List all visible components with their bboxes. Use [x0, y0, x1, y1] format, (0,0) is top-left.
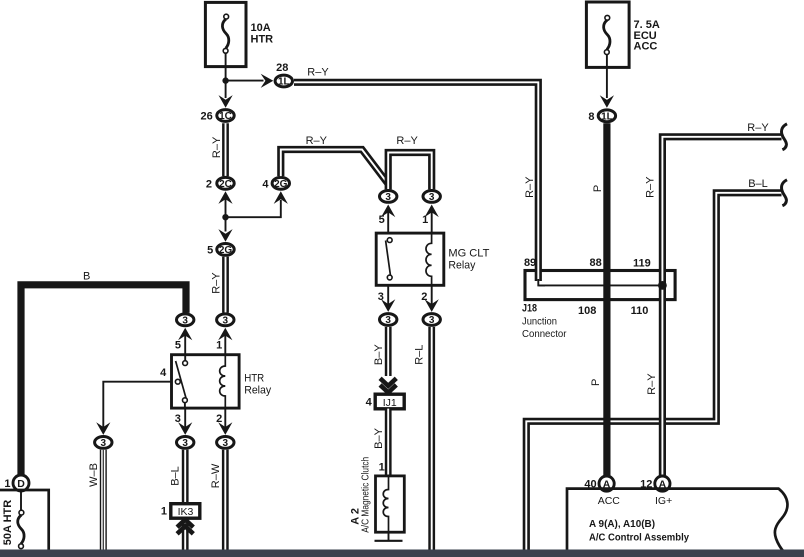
- svg-text:IK3: IK3: [178, 506, 194, 518]
- wire MG relay pin 3 down: [387, 285, 389, 305]
- connector 3 on B-L wire: [177, 437, 194, 450]
- chevron arrows above IJ1: [380, 378, 396, 392]
- connector arrow below 2C: [218, 191, 232, 204]
- svg-text:A 9(A), A10(B): A 9(A), A10(B): [589, 518, 655, 530]
- wire fuse output vertical: [225, 67, 227, 98]
- junction IJ1 box: [375, 394, 404, 409]
- svg-text:10A: 10A: [251, 22, 271, 34]
- HTR relay coil: [220, 355, 226, 408]
- connector 1L pin 28: [275, 75, 292, 88]
- svg-text:1: 1: [4, 478, 10, 490]
- svg-text:D: D: [17, 478, 25, 490]
- svg-text:5: 5: [379, 214, 385, 226]
- node junction below 10A fuse: [222, 77, 228, 83]
- svg-text:8: 8: [588, 111, 594, 123]
- fuse 7.5A ECU ACC element: [604, 15, 610, 54]
- svg-text:P: P: [592, 185, 604, 192]
- svg-text:4: 4: [160, 367, 167, 379]
- svg-text:J18: J18: [522, 303, 537, 315]
- wire to HTR relay pin 1: [224, 332, 226, 355]
- connector arrow into 3 (MG pin1): [425, 205, 439, 218]
- svg-text:A/C Control Assembly: A/C Control Assembly: [589, 532, 689, 544]
- connector 2G pin 4: [272, 177, 289, 189]
- relay MG CLT box: [376, 233, 444, 285]
- svg-text:R–Y: R–Y: [524, 176, 536, 198]
- svg-text:Connector: Connector: [522, 328, 567, 340]
- svg-text:1: 1: [161, 506, 167, 518]
- wire ECU fuse down to 1L(8): [606, 54, 608, 98]
- svg-text:28: 28: [276, 62, 288, 74]
- wire MG relay pin 2 down: [431, 285, 433, 305]
- wire B from HTR relay connector to 50A HTR fuse: [21, 285, 186, 476]
- svg-text:3: 3: [429, 192, 435, 203]
- wire branch to connector 1L(28): [226, 80, 264, 82]
- wire R-L down to bottom: [428, 327, 435, 550]
- fuse 50A HTR box: [0, 490, 49, 557]
- connector 3 on B-Y wire: [380, 314, 397, 327]
- svg-text:1: 1: [216, 339, 222, 351]
- svg-text:3: 3: [223, 315, 229, 326]
- svg-text:3: 3: [175, 413, 181, 425]
- svg-text:88: 88: [590, 257, 602, 269]
- node junction below 2C: [222, 214, 228, 220]
- svg-text:1: 1: [422, 214, 428, 226]
- svg-text:3: 3: [429, 315, 435, 326]
- wire B-L from connector to IK3: [182, 450, 189, 504]
- svg-text:W–B: W–B: [88, 463, 100, 487]
- wire HTR relay pin 5 internal: [184, 355, 186, 361]
- svg-text:110: 110: [631, 305, 649, 317]
- svg-text:R–Y: R–Y: [645, 176, 657, 198]
- connector 3 on W-B wire: [95, 437, 112, 450]
- fuse 10A HTR element: [222, 14, 228, 53]
- connector 2C pin 2: [217, 177, 234, 189]
- svg-text:3: 3: [385, 315, 391, 326]
- svg-text:MG CLT: MG CLT: [448, 248, 489, 260]
- wire to MG relay pin 1: [431, 208, 433, 233]
- wire B-L below IK3: [182, 518, 189, 550]
- svg-text:R–Y: R–Y: [396, 135, 418, 147]
- wire break symbol R-Y: [782, 124, 787, 150]
- wire D to 50A fuse element: [20, 491, 22, 511]
- svg-text:5: 5: [175, 339, 181, 351]
- svg-text:2: 2: [206, 178, 212, 190]
- connector 2G pin 5: [217, 244, 234, 257]
- svg-text:1C: 1C: [219, 111, 232, 122]
- connector A pin 40 ACC: [599, 476, 614, 491]
- connector arrow above 3 (R-W): [218, 422, 232, 435]
- wire to HTR relay pin 5: [184, 332, 186, 355]
- svg-text:A/C Magnetic Clutch: A/C Magnetic Clutch: [360, 457, 372, 533]
- connector 1L pin 8: [598, 110, 615, 123]
- A/C magnetic clutch coil: [383, 476, 388, 532]
- svg-text:2C: 2C: [219, 179, 232, 190]
- connector 3 above MG relay pin 5: [380, 191, 397, 204]
- wire HTR relay pin 2 down: [224, 408, 226, 428]
- fuse 10A HTR box: [205, 2, 246, 66]
- svg-text:B: B: [83, 271, 90, 283]
- MG CLT relay switch: [386, 238, 393, 280]
- wire P from 1L(8) through J18 to ACC: [603, 123, 610, 476]
- connector arrow into 3 (MG pin5): [381, 205, 395, 218]
- connector 1C pin 26: [217, 110, 234, 123]
- svg-text:3: 3: [101, 438, 107, 449]
- connector 3 above HTR relay pin 1: [217, 314, 234, 327]
- connector 3 on R-L wire: [423, 314, 440, 327]
- connector 3 above HTR relay pin 5: [177, 314, 194, 327]
- wire R-Y from right edge down to IG+: [662, 137, 781, 476]
- connector arrow above 3 (W-B): [96, 422, 110, 435]
- wire R-W down to bottom: [222, 450, 229, 550]
- connector arrow above 3 (B-Y): [381, 299, 395, 312]
- svg-text:R–Y: R–Y: [211, 272, 223, 294]
- svg-text:3: 3: [223, 438, 229, 449]
- svg-text:2G: 2G: [219, 245, 233, 256]
- svg-text:4: 4: [366, 397, 373, 409]
- junction connector J18 box: [525, 271, 675, 300]
- svg-text:119: 119: [633, 258, 651, 270]
- svg-text:R–L: R–L: [414, 345, 426, 365]
- wire branch to 2G pin 4: [226, 200, 281, 217]
- wire HTR relay pin 4 to W-B connector: [103, 382, 171, 428]
- connector arrow below left 3: [178, 328, 192, 341]
- svg-text:4: 4: [262, 178, 269, 190]
- svg-text:1: 1: [379, 461, 385, 473]
- svg-text:B–Y: B–Y: [373, 427, 385, 448]
- svg-text:3: 3: [182, 438, 188, 449]
- node junction of R-Y wires inside J18: [658, 281, 667, 290]
- svg-text:3: 3: [385, 192, 391, 203]
- bottom window bar: [0, 550, 804, 557]
- wire B-L from right edge to bottom exit: [526, 193, 781, 550]
- svg-text:R–W: R–W: [210, 463, 222, 488]
- wire HTR relay pin 3 internal: [184, 402, 186, 408]
- svg-text:Junction: Junction: [522, 316, 557, 328]
- svg-text:R–Y: R–Y: [307, 67, 329, 79]
- connector arrow into 1L(8): [600, 95, 614, 108]
- wire 2C down to junction: [225, 196, 227, 232]
- fuse 50A HTR element: [18, 510, 24, 548]
- wire R-Y loop pin5 to pin1 of MG CLT relay: [388, 153, 432, 190]
- svg-text:108: 108: [578, 305, 596, 317]
- svg-text:R–Y: R–Y: [306, 135, 328, 147]
- wire HTR relay pin 3 down: [184, 408, 186, 428]
- wire W-B striped down to bottom: [100, 450, 107, 550]
- svg-text:B–L: B–L: [170, 466, 182, 486]
- connector D pin 1: [13, 475, 29, 491]
- connector 3 on R-W wire: [217, 437, 234, 450]
- svg-text:Relay: Relay: [244, 385, 271, 397]
- svg-text:26: 26: [201, 111, 213, 123]
- svg-text:B–L: B–L: [748, 178, 768, 190]
- HTR relay switch: [175, 361, 187, 403]
- wire clutch to ground: [388, 532, 390, 540]
- wire R-Y elbow to J18 bus: [538, 279, 545, 285]
- wire B-Y from connector to IJ1: [385, 327, 392, 376]
- chevron arrows below IK3: [177, 520, 193, 534]
- svg-text:IG+: IG+: [655, 495, 672, 507]
- svg-text:HTR: HTR: [244, 373, 264, 385]
- wire break symbol B-L: [782, 180, 787, 206]
- svg-text:5: 5: [207, 244, 213, 256]
- svg-text:50A HTR: 50A HTR: [2, 500, 14, 545]
- wire R-Y between 1C and 2C: [222, 123, 229, 176]
- fuse 7.5A ECU ACC box: [586, 2, 629, 67]
- connector arrow into 1L(28): [261, 74, 274, 88]
- svg-text:Relay: Relay: [448, 260, 475, 272]
- connector 3 above MG relay pin 1: [423, 191, 440, 204]
- svg-text:B–Y: B–Y: [373, 344, 385, 365]
- wire R-Y from 2G(4) to MG CLT relay pin 5: [281, 150, 388, 185]
- svg-text:1L: 1L: [278, 77, 290, 88]
- svg-text:ACC: ACC: [634, 40, 658, 52]
- wire from fuse 10A to node: [225, 53, 227, 67]
- connector arrow above 3 (B-L): [178, 422, 192, 435]
- connector A pin 12 IG+: [655, 476, 670, 491]
- connector arrow into 2G(5): [218, 229, 232, 242]
- connector arrow below right 3: [218, 328, 232, 341]
- svg-text:ACC: ACC: [598, 495, 621, 507]
- ground symbol: [375, 540, 403, 542]
- relay HTR box: [172, 355, 240, 408]
- MG CLT relay coil: [426, 233, 432, 285]
- svg-text:89: 89: [524, 257, 536, 269]
- wire R-Y from connector 1L to J18 pin 89: [294, 82, 538, 281]
- svg-text:3: 3: [182, 315, 188, 326]
- svg-text:R–Y: R–Y: [646, 373, 658, 395]
- svg-text:P: P: [590, 379, 602, 386]
- wire R-Y from 2G(5) to relay connector: [222, 257, 229, 313]
- svg-text:2G: 2G: [274, 179, 288, 190]
- svg-text:1L: 1L: [601, 111, 613, 122]
- wire B-Y below IJ1: [385, 409, 392, 476]
- junction IK3 box: [171, 504, 200, 519]
- A/C control assembly box: [567, 489, 787, 556]
- connector arrow above 3 (R-L): [425, 299, 439, 312]
- svg-text:R–Y: R–Y: [747, 122, 769, 134]
- svg-text:IJ1: IJ1: [383, 397, 397, 409]
- A/C magnetic clutch A2 box: [376, 476, 405, 532]
- svg-text:R–Y: R–Y: [211, 136, 223, 158]
- connector arrow into 1C: [219, 95, 233, 108]
- connector arrow into 2G(4): [274, 191, 288, 204]
- svg-text:HTR: HTR: [251, 34, 274, 46]
- J18 internal bus wire: [539, 284, 663, 286]
- wire to MG relay pin 5: [387, 208, 389, 233]
